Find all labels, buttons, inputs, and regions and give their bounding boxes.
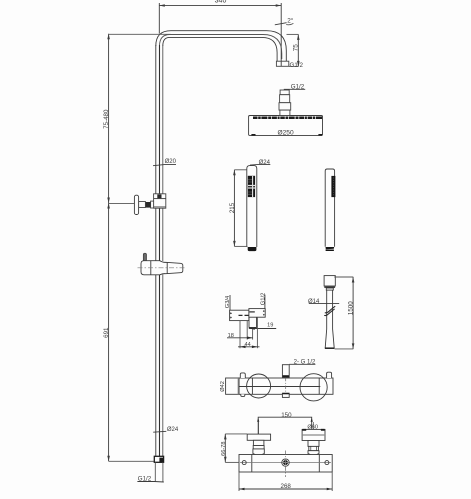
svg-text:150: 150 bbox=[281, 412, 292, 419]
svg-text:2- G 1/2: 2- G 1/2 bbox=[294, 359, 316, 365]
mixer top view: body mid line bbox=[239, 386, 320, 388]
column riser pipe bbox=[156, 45, 163, 456]
elbow lower leg bbox=[249, 317, 257, 328]
hand shower holder body bbox=[138, 261, 187, 275]
label G3/4 bbox=[225, 295, 231, 310]
dimension 66-78 (projection) bbox=[221, 434, 247, 463]
svg-text:G3/4: G3/4 bbox=[225, 295, 231, 308]
svg-text:44: 44 bbox=[244, 342, 250, 348]
dimension 150 (handle spacing) bbox=[257, 412, 313, 453]
svg-text:G1/2: G1/2 bbox=[290, 62, 304, 69]
svg-text:215: 215 bbox=[229, 202, 236, 213]
elbow extension lines bbox=[240, 317, 257, 348]
shower arm tube (column top bend to outlet) bbox=[156, 31, 286, 62]
label D20 (pipe diameter) bbox=[153, 159, 177, 166]
svg-text:66-78: 66-78 bbox=[221, 442, 227, 456]
hand shower front view body bbox=[247, 166, 257, 247]
mixer top view: handle circles bbox=[247, 374, 328, 401]
hand shower side view body bbox=[325, 169, 334, 247]
arm outlet flange G1/2 bbox=[276, 61, 303, 69]
svg-text:Ø250: Ø250 bbox=[278, 130, 294, 137]
svg-text:Ø24: Ø24 bbox=[167, 427, 179, 433]
mixer front: body bar bbox=[239, 455, 332, 473]
svg-text:Ø14: Ø14 bbox=[308, 299, 320, 305]
wall union elbow body G1/2 bbox=[249, 309, 265, 318]
hand shower front bottom cap bbox=[248, 247, 257, 251]
svg-text:Ø24: Ø24 bbox=[259, 160, 271, 166]
label D14 (hose) bbox=[308, 299, 339, 305]
dimension 1500 (hose length) bbox=[334, 277, 354, 349]
label G1/2 (head stem) bbox=[284, 83, 305, 90]
mixer top view: left end cap D42 bbox=[220, 378, 239, 394]
mixer top view: body panel dividers bbox=[252, 378, 319, 394]
dimension 75-480 (upper adjustable) bbox=[103, 34, 170, 203]
mixer front: center knob bbox=[282, 451, 289, 478]
svg-text:18: 18 bbox=[228, 333, 234, 339]
svg-text:340: 340 bbox=[215, 0, 227, 5]
dimension 340 (top width) bbox=[159, 0, 281, 66]
hand shower holder lever bbox=[143, 253, 146, 261]
svg-text:268: 268 bbox=[281, 483, 292, 490]
svg-text:75-480: 75-480 bbox=[103, 109, 110, 129]
label D24 (hand shower) bbox=[250, 160, 271, 166]
hand shower front spray face bbox=[248, 176, 255, 197]
mixer top view: bottom tabs bbox=[241, 393, 289, 397]
bottom inlet fitting bbox=[154, 456, 163, 462]
hose top nut bbox=[324, 276, 335, 291]
svg-text:19: 19 bbox=[267, 323, 273, 329]
mixer top view: body bar bbox=[239, 378, 333, 394]
wall union elbow G3/4 nut bbox=[230, 310, 251, 320]
overhead shower stem bbox=[279, 90, 291, 116]
mixer top view: top tabs bbox=[240, 372, 331, 378]
label 2- G 1/2 bbox=[289, 359, 316, 365]
dimension 75 (arm drop) bbox=[287, 34, 300, 66]
svg-text:Ø20: Ø20 bbox=[165, 159, 177, 165]
svg-text:G1/2: G1/2 bbox=[291, 83, 305, 90]
dimension 19 (leg offset) bbox=[249, 323, 276, 330]
mixer front: left handle centerline bbox=[258, 422, 260, 454]
svg-text:691: 691 bbox=[103, 327, 110, 338]
dimension 215 (hand shower length) bbox=[229, 170, 248, 247]
mixer front: right fixing screw bbox=[325, 461, 329, 465]
label G1/2 (elbow) bbox=[261, 293, 267, 309]
mixer top view: center outlet 2-G1/2 bbox=[282, 365, 289, 393]
hose bottom cone bbox=[325, 329, 335, 348]
svg-text:75: 75 bbox=[293, 44, 300, 52]
mixer front: right flow handle bbox=[302, 429, 325, 455]
dimension 268 (body length) bbox=[239, 472, 332, 491]
hand shower side spray edge bbox=[331, 176, 335, 197]
dimension 691 (lower length) bbox=[103, 203, 154, 461]
bottom inlet tube G1/2 bbox=[137, 462, 163, 482]
svg-text:G1/2: G1/2 bbox=[261, 293, 267, 306]
diverter knob (cross handle edge view) bbox=[134, 195, 138, 214]
hose tube with break symbol bbox=[324, 290, 335, 329]
mixer front: right flow handle centerline bbox=[312, 422, 314, 455]
svg-text:Ø42: Ø42 bbox=[220, 381, 226, 392]
svg-text:1500: 1500 bbox=[348, 301, 355, 315]
diverter slider bracket on pipe bbox=[154, 194, 166, 208]
angle annotation 2deg bbox=[275, 17, 294, 25]
dimension 44 bbox=[238, 342, 260, 348]
overhead shower body D250 bbox=[249, 116, 323, 137]
dimension 18 bbox=[227, 333, 253, 339]
mixer front: left temperature handle bbox=[247, 434, 270, 455]
label D24 (bottom pipe) bbox=[153, 427, 179, 433]
diverter stem and collar bbox=[139, 201, 154, 208]
mixer front: left fixing screw bbox=[242, 461, 246, 465]
hand shower side bottom cap bbox=[326, 247, 335, 251]
